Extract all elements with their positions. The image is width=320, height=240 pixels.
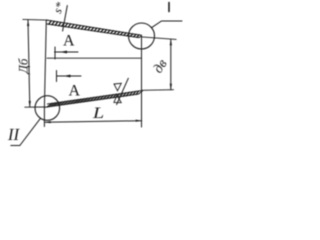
дв dimension arrow top — [170, 39, 172, 45]
section marker A lower: line — [57, 75, 82, 77]
svg-text:II: II — [7, 125, 21, 144]
section A upper arrowhead — [60, 51, 68, 54]
top band hatching — [49, 21, 139, 38]
дв dimension arrow bottom — [170, 84, 172, 90]
top generator weld band inner line — [47, 24, 142, 38]
detail I label stroke — [168, 3, 170, 12]
dimension дв extension line bottom — [142, 89, 173, 92]
section marker A upper: bar — [54, 47, 56, 59]
detail circle II — [35, 96, 60, 121]
thickness leader s* — [63, 6, 68, 32]
bottom band hatching — [47, 91, 138, 107]
top generator weld band outer line — [46, 20, 141, 35]
dimension дв extension line top — [142, 37, 176, 40]
weld mark upper triangle — [114, 83, 121, 91]
dimension Дб extension line top — [23, 18, 48, 21]
cone right edge (small end) and L extension — [141, 35, 143, 127]
section marker A upper: line — [55, 51, 79, 53]
detail II leader — [11, 118, 41, 145]
detail circle I — [129, 23, 155, 49]
section marker A lower: bar — [56, 71, 58, 82]
svg-text:Дб: Дб — [16, 58, 31, 75]
svg-text:L: L — [92, 105, 105, 122]
bottom generator weld band inner line — [48, 91, 143, 105]
L dimension arrow right — [136, 120, 142, 122]
Дб dimension arrow bottom — [29, 101, 31, 107]
dimension Дб line — [28, 20, 30, 107]
section A lower arrowhead — [63, 75, 71, 78]
weld mark lower triangle — [114, 95, 121, 103]
cone left edge (big end) — [44, 20, 46, 127]
L dimension arrow left — [45, 121, 51, 123]
svg-text:A: A — [63, 33, 75, 50]
dimension L line — [45, 121, 142, 123]
dimension дв line — [170, 39, 172, 90]
dimension Дб extension line bottom — [25, 106, 45, 108]
weld mark leader — [117, 78, 129, 104]
axis midline — [47, 57, 142, 59]
svg-text:A: A — [69, 83, 81, 100]
Дб dimension arrow top — [27, 20, 29, 26]
bottom generator weld band outer line — [45, 91, 143, 107]
detail I leader — [152, 21, 183, 28]
